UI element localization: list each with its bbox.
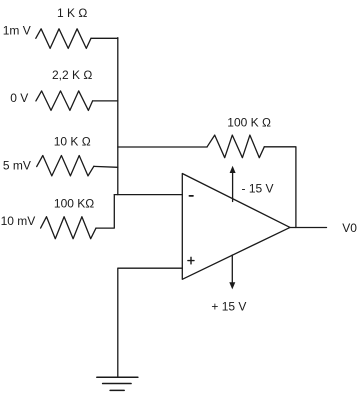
negative supply arrow	[232, 169, 234, 202]
wire R2 to bus	[93, 100, 118, 102]
svg-text:+ 15 V: + 15 V	[211, 299, 246, 313]
resistor R1	[36, 29, 91, 49]
resistor R3	[37, 156, 94, 176]
svg-text:10 mV: 10 mV	[1, 214, 36, 228]
svg-text:100 KΩ: 100 KΩ	[54, 196, 94, 210]
wire R1 to bus	[91, 37, 118, 39]
ground	[97, 377, 138, 390]
resistor R4	[41, 217, 96, 239]
wire feedback tap	[118, 146, 207, 148]
pin minus symbol	[189, 195, 193, 197]
svg-text:5 mV: 5 mV	[3, 159, 31, 173]
svg-text:10 K Ω: 10 K Ω	[54, 134, 91, 148]
svg-text:1m V: 1m V	[3, 24, 31, 38]
svg-text:0 V: 0 V	[10, 91, 28, 105]
wire non-inverting input to ground	[118, 268, 183, 377]
svg-text:2,2 K Ω: 2,2 K Ω	[52, 68, 92, 82]
svg-text:1 K Ω: 1 K Ω	[57, 6, 87, 20]
positive supply arrow	[231, 255, 233, 286]
wire output	[290, 227, 327, 229]
wire R3 to bus	[94, 165, 118, 168]
svg-text:100 K Ω: 100 K Ω	[227, 116, 271, 130]
resistor R2	[36, 91, 93, 111]
wire R4 riser to inverting node	[96, 195, 114, 229]
wire inverting input	[114, 194, 182, 196]
pin plus symbol	[188, 257, 194, 264]
wire feedback right drop	[264, 147, 296, 228]
svg-text:V0: V0	[342, 221, 357, 235]
wire input bus vertical	[117, 38, 119, 195]
svg-text:- 15 V: - 15 V	[242, 181, 274, 195]
op-amp U1	[182, 174, 290, 280]
resistor RF feedback	[207, 135, 264, 158]
